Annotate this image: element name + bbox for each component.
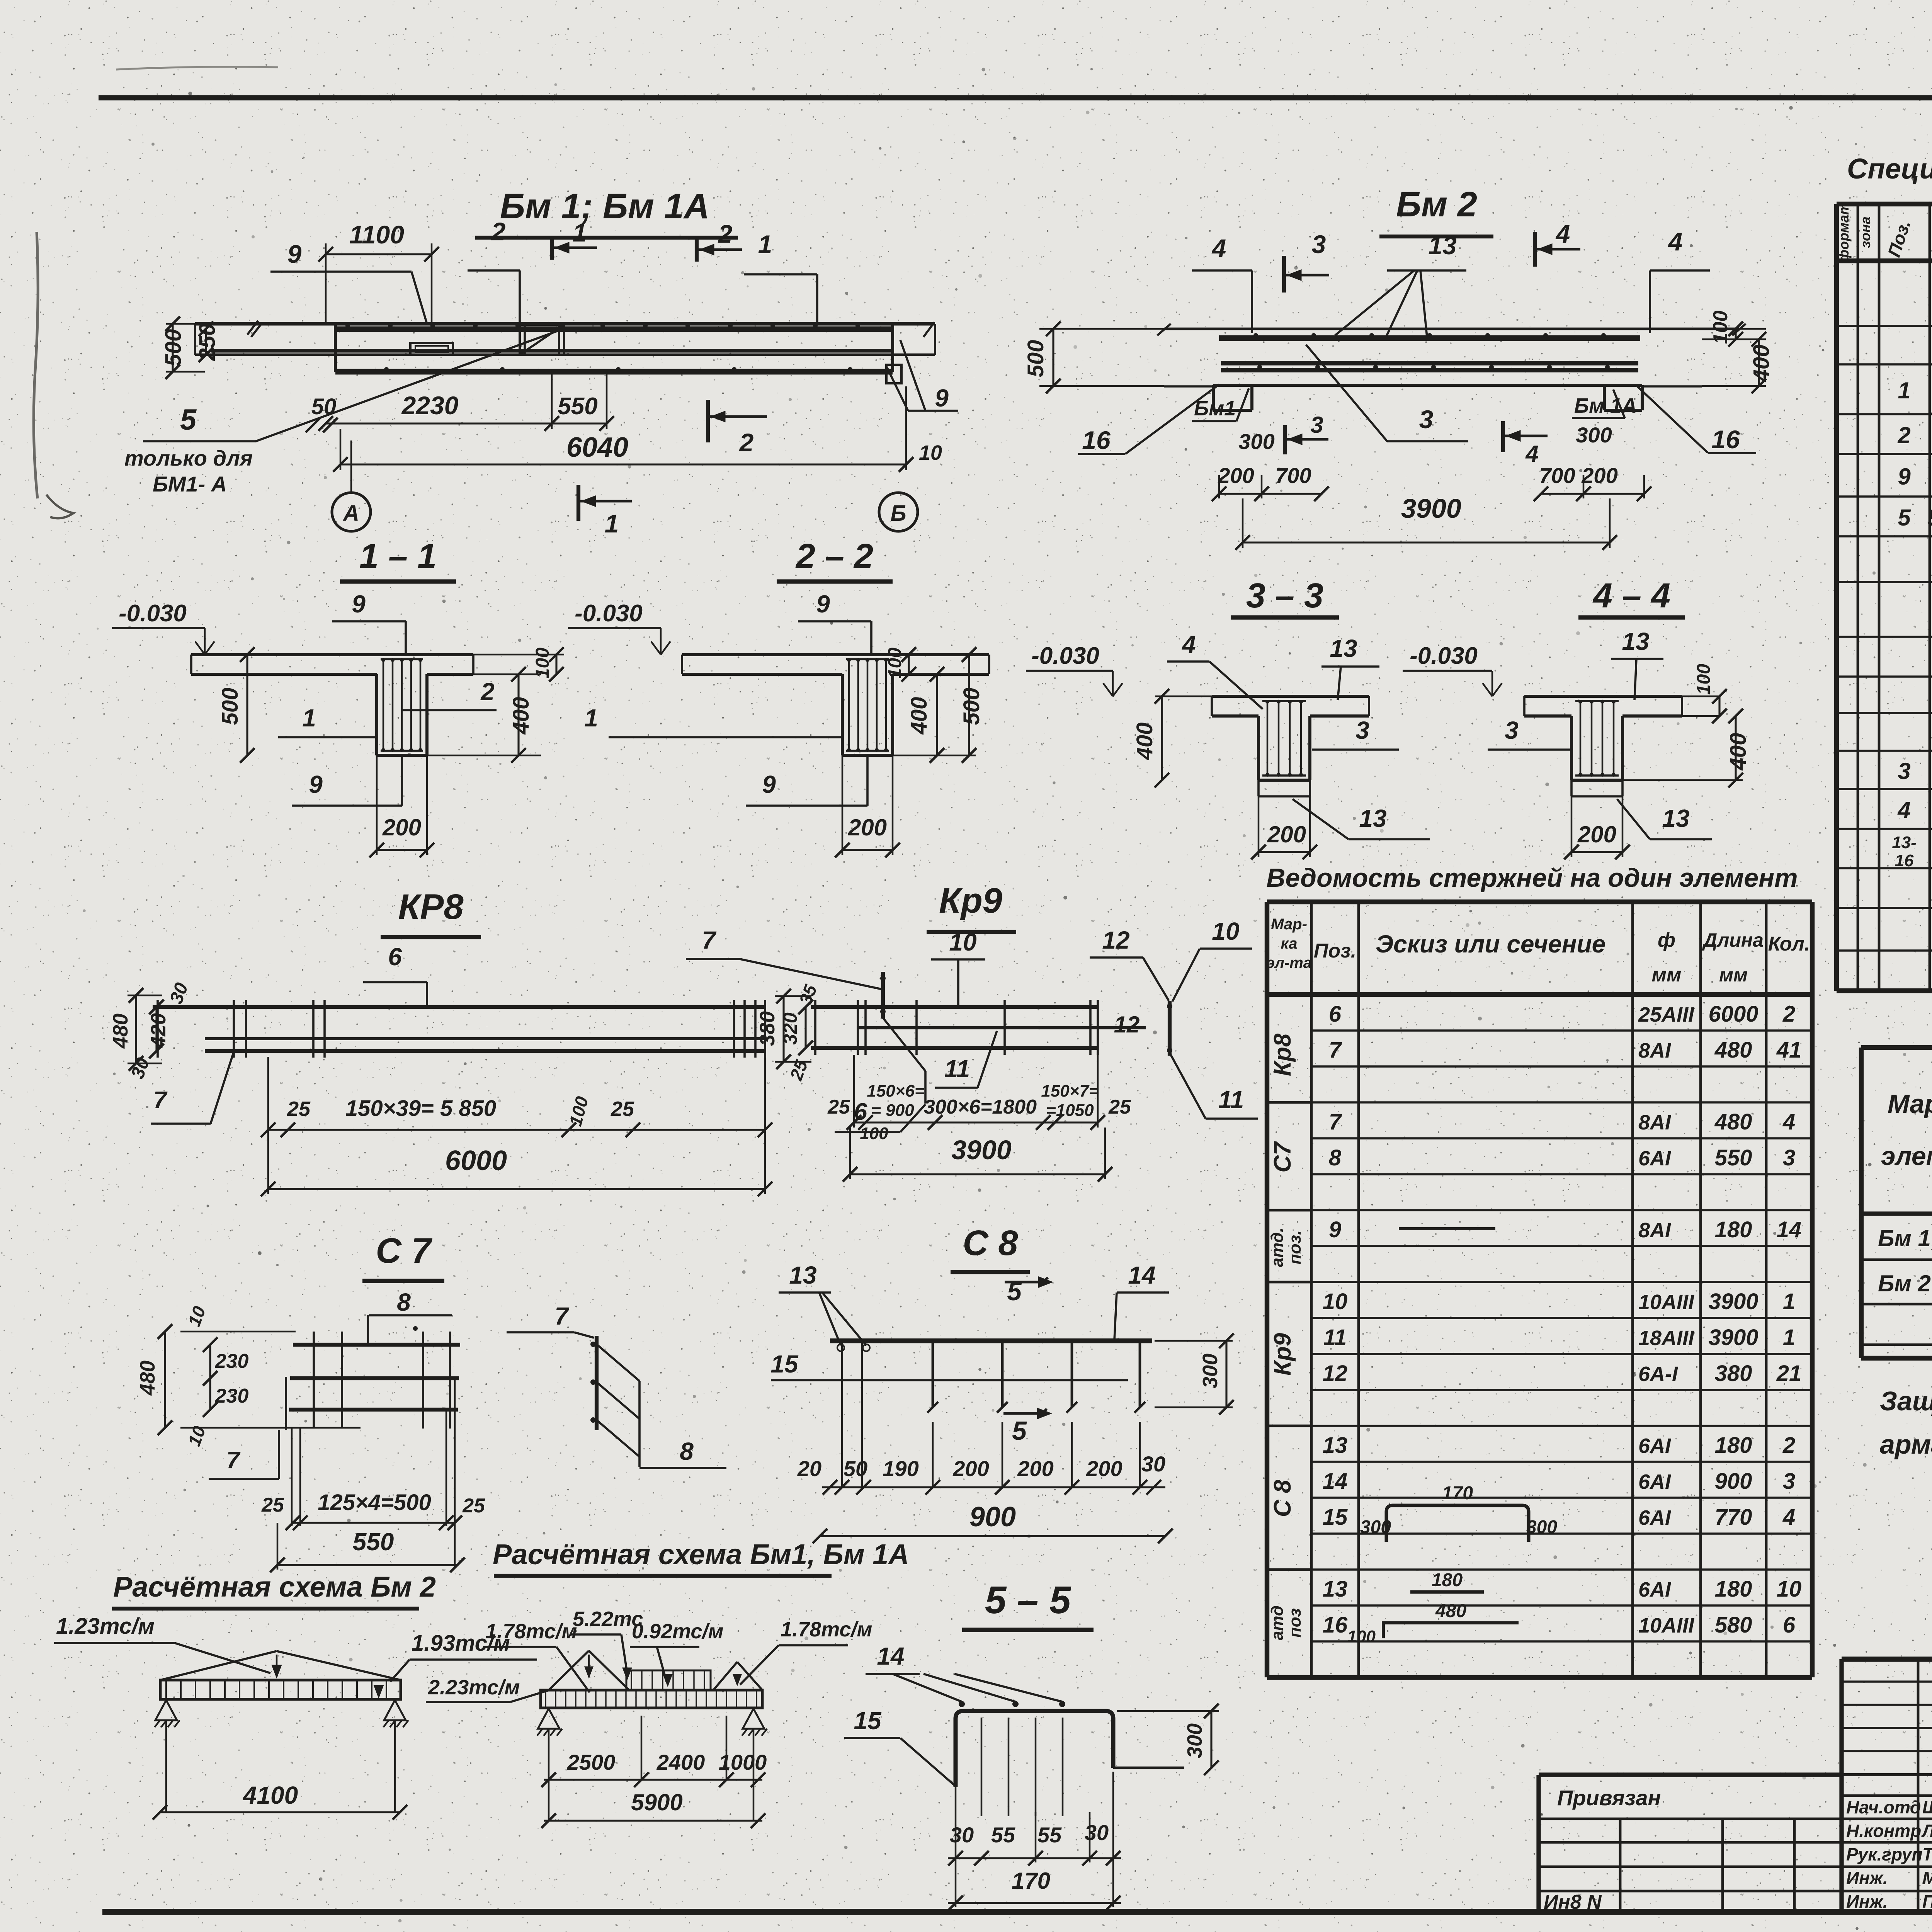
svg-text:2: 2	[1782, 1002, 1795, 1027]
svg-text:10: 10	[1777, 1577, 1802, 1602]
svg-text:170: 170	[1442, 1483, 1473, 1503]
svg-text:5: 5	[1898, 505, 1911, 531]
svg-text:9: 9	[816, 590, 830, 618]
svg-text:14: 14	[1323, 1469, 1348, 1494]
svg-text:180: 180	[1715, 1433, 1752, 1458]
svg-text:=1050: =1050	[1046, 1101, 1094, 1120]
svg-text:0.92тс/м: 0.92тс/м	[632, 1620, 723, 1643]
svg-text:200: 200	[1218, 463, 1254, 488]
svg-text:1: 1	[1783, 1289, 1795, 1314]
svg-text:150×7=: 150×7=	[1041, 1082, 1099, 1100]
svg-text:-0.030: -0.030	[575, 600, 643, 627]
svg-text:2: 2	[739, 428, 754, 457]
svg-text:13: 13	[1323, 1577, 1348, 1602]
svg-text:Кр8: Кр8	[1269, 1033, 1296, 1076]
svg-text:770: 770	[1715, 1505, 1752, 1530]
svg-text:8: 8	[1329, 1145, 1342, 1170]
svg-text:7: 7	[554, 1302, 570, 1330]
svg-text:14: 14	[1777, 1217, 1802, 1242]
svg-text:А: А	[342, 501, 359, 526]
svg-text:1 – 1: 1 – 1	[359, 537, 437, 576]
svg-text:6: 6	[388, 943, 402, 971]
svg-text:2: 2	[718, 219, 733, 248]
svg-text:16: 16	[1711, 425, 1740, 454]
svg-text:9: 9	[1329, 1217, 1341, 1242]
svg-text:13: 13	[1359, 804, 1386, 832]
svg-text:мм: мм	[1719, 964, 1748, 986]
svg-text:21: 21	[1776, 1361, 1802, 1386]
svg-text:6000: 6000	[1708, 1002, 1758, 1027]
svg-text:Нач.отд: Нач.отд	[1846, 1797, 1921, 1817]
svg-text:900: 900	[1715, 1469, 1752, 1494]
svg-text:25: 25	[287, 1097, 311, 1121]
svg-text:= 900: = 900	[871, 1101, 914, 1120]
svg-text:3: 3	[1355, 716, 1369, 744]
svg-text:10АIII: 10АIII	[1638, 1291, 1694, 1314]
svg-text:55: 55	[1037, 1823, 1062, 1847]
svg-text:Мар-: Мар-	[1271, 916, 1307, 933]
svg-text:9: 9	[1898, 464, 1911, 490]
svg-text:16: 16	[1895, 851, 1914, 870]
svg-text:55: 55	[991, 1823, 1015, 1847]
svg-text:3: 3	[1310, 412, 1323, 438]
svg-text:2: 2	[1782, 1433, 1795, 1458]
svg-text:Поз.: Поз.	[1314, 940, 1356, 962]
svg-text:2 – 2: 2 – 2	[795, 537, 873, 576]
svg-text:180: 180	[1715, 1217, 1752, 1242]
svg-text:2.23тс/м: 2.23тс/м	[428, 1676, 520, 1699]
svg-text:Перова: Перова	[1922, 1891, 1932, 1912]
svg-text:4 – 4: 4 – 4	[1592, 577, 1670, 615]
svg-text:3900: 3900	[1401, 493, 1461, 524]
svg-text:5: 5	[180, 403, 197, 436]
svg-text:Защитный слой бетона д: Защитный слой бетона для рабочей	[1880, 1386, 1932, 1416]
svg-text:6: 6	[1783, 1612, 1796, 1638]
svg-text:180: 180	[1432, 1570, 1463, 1590]
svg-text:1.78тс/м: 1.78тс/м	[485, 1620, 577, 1643]
svg-text:400: 400	[906, 697, 932, 735]
svg-text:С 7: С 7	[376, 1231, 432, 1270]
svg-text:18АIII: 18АIII	[1638, 1327, 1694, 1350]
svg-text:580: 580	[1715, 1612, 1752, 1638]
svg-text:14: 14	[1128, 1261, 1155, 1289]
svg-text:атд: атд	[1268, 1605, 1287, 1640]
svg-text:3: 3	[1783, 1145, 1795, 1170]
svg-text:25: 25	[462, 1495, 485, 1517]
svg-text:13: 13	[789, 1261, 816, 1289]
svg-text:5900: 5900	[631, 1789, 682, 1815]
svg-text:6АI: 6АI	[1638, 1147, 1671, 1170]
svg-text:1100: 1100	[349, 220, 404, 249]
svg-text:50: 50	[844, 1456, 867, 1481]
svg-text:150×39= 5 850: 150×39= 5 850	[345, 1096, 496, 1121]
svg-text:Н.контр: Н.контр	[1846, 1821, 1921, 1841]
svg-text:атд.: атд.	[1268, 1228, 1287, 1267]
svg-text:300: 300	[1526, 1517, 1557, 1537]
svg-text:550: 550	[1715, 1145, 1752, 1170]
svg-text:1.23тс/м: 1.23тс/м	[56, 1614, 155, 1639]
svg-text:300: 300	[1199, 1354, 1222, 1388]
svg-text:15: 15	[1323, 1505, 1348, 1530]
svg-text:3: 3	[1312, 230, 1326, 259]
svg-text:480: 480	[1435, 1601, 1466, 1621]
svg-text:6АI: 6АI	[1638, 1470, 1671, 1493]
svg-text:4: 4	[1555, 219, 1570, 248]
svg-text:900: 900	[969, 1502, 1016, 1532]
svg-text:25: 25	[261, 1494, 284, 1516]
svg-text:1: 1	[1783, 1325, 1795, 1350]
svg-text:200: 200	[1267, 821, 1306, 847]
svg-text:1.78тс/м: 1.78тс/м	[781, 1618, 872, 1641]
svg-text:902-1-54 –КЖИ-МН16: 902-1-54 –КЖИ-МН16	[1927, 504, 1932, 531]
svg-text:200: 200	[848, 815, 887, 840]
svg-text:100: 100	[860, 1124, 888, 1143]
svg-text:200: 200	[1017, 1456, 1053, 1481]
svg-text:эл-та: эл-та	[1266, 954, 1312, 971]
svg-text:6АI: 6АI	[1638, 1434, 1671, 1458]
svg-text:250: 250	[195, 323, 220, 361]
svg-text:25АIII: 25АIII	[1638, 1003, 1694, 1026]
svg-text:5 – 5: 5 – 5	[985, 1578, 1071, 1622]
svg-text:400: 400	[1132, 723, 1157, 760]
svg-text:4: 4	[1897, 797, 1910, 823]
svg-text:КР8: КР8	[398, 887, 464, 927]
svg-text:1: 1	[573, 218, 587, 247]
svg-text:-0.030: -0.030	[119, 600, 187, 627]
svg-text:13: 13	[1323, 1433, 1348, 1458]
svg-text:25: 25	[827, 1096, 850, 1118]
svg-text:9: 9	[352, 590, 366, 618]
svg-text:9: 9	[309, 770, 323, 798]
svg-text:6000: 6000	[445, 1145, 507, 1176]
svg-text:9: 9	[287, 240, 302, 268]
svg-text:13-: 13-	[1892, 833, 1917, 852]
svg-text:400: 400	[1749, 345, 1774, 383]
svg-text:150×6=: 150×6=	[867, 1082, 924, 1100]
svg-text:С 8: С 8	[963, 1223, 1018, 1263]
svg-text:700: 700	[1539, 463, 1575, 488]
svg-text:Спецификация элементов монолит: Спецификация элементов монолитной констр…	[1847, 153, 1932, 185]
svg-text:3: 3	[1505, 716, 1519, 744]
svg-text:2230: 2230	[401, 391, 459, 420]
svg-text:1: 1	[1898, 378, 1910, 403]
svg-text:500: 500	[161, 329, 186, 367]
svg-text:300: 300	[1360, 1517, 1391, 1537]
svg-text:4: 4	[1782, 1109, 1795, 1134]
svg-text:только для: только для	[124, 446, 253, 470]
svg-text:Ин8 N: Ин8 N	[1544, 1891, 1602, 1913]
svg-text:13: 13	[1662, 804, 1689, 832]
svg-text:Расчётная схема Бм 2: Расчётная схема Бм 2	[113, 1571, 436, 1603]
svg-text:550: 550	[558, 393, 597, 420]
svg-text:100: 100	[885, 648, 905, 679]
svg-text:6040: 6040	[566, 432, 628, 463]
svg-text:180: 180	[1715, 1577, 1752, 1602]
svg-text:Марка: Марка	[1888, 1089, 1932, 1119]
svg-text:2: 2	[480, 678, 495, 706]
svg-text:3: 3	[1898, 758, 1910, 784]
svg-text:10: 10	[1212, 917, 1239, 945]
svg-text:170: 170	[1012, 1868, 1050, 1894]
svg-text:500: 500	[1023, 340, 1048, 378]
svg-text:12: 12	[1323, 1361, 1348, 1386]
svg-text:Расчётная схема Бм1, Бм 1А: Расчётная схема Бм1, Бм 1А	[493, 1538, 909, 1570]
svg-text:3900: 3900	[1708, 1325, 1758, 1350]
svg-text:15: 15	[770, 1350, 799, 1378]
svg-text:Бм 2: Бм 2	[1396, 185, 1477, 224]
svg-text:700: 700	[1275, 463, 1311, 488]
svg-text:300×6=1800: 300×6=1800	[924, 1096, 1037, 1118]
svg-text:Мягкая: Мягкая	[1922, 1868, 1932, 1888]
svg-text:7: 7	[226, 1447, 241, 1474]
svg-text:6: 6	[1329, 1002, 1342, 1027]
svg-text:элемента: элемента	[1881, 1141, 1932, 1171]
svg-text:Бм1: Бм1	[1194, 397, 1236, 420]
svg-text:9: 9	[762, 770, 776, 798]
svg-text:Длина: Длина	[1702, 929, 1764, 951]
svg-text:4: 4	[1668, 227, 1683, 256]
svg-text:11: 11	[1218, 1086, 1244, 1114]
svg-text:2: 2	[1897, 422, 1910, 448]
svg-text:мм: мм	[1652, 964, 1682, 986]
svg-text:380: 380	[756, 1011, 779, 1046]
svg-text:8: 8	[680, 1437, 694, 1465]
svg-text:10: 10	[1323, 1289, 1348, 1314]
svg-text:3 – 3: 3 – 3	[1246, 577, 1323, 615]
svg-text:зона: зона	[1857, 216, 1873, 248]
svg-text:230: 230	[215, 1350, 249, 1372]
svg-text:480: 480	[136, 1361, 159, 1396]
svg-text:4: 4	[1525, 441, 1538, 467]
svg-text:3900: 3900	[1708, 1289, 1758, 1314]
svg-text:Инж.: Инж.	[1846, 1891, 1888, 1912]
svg-text:550: 550	[353, 1528, 394, 1556]
svg-text:8: 8	[397, 1288, 411, 1316]
svg-text:30: 30	[1085, 1820, 1109, 1845]
svg-text:Бм 1А: Бм 1А	[1574, 394, 1637, 417]
svg-text:25: 25	[1108, 1096, 1131, 1118]
svg-text:ф: ф	[1658, 929, 1675, 951]
svg-text:100: 100	[1694, 664, 1714, 695]
svg-text:6АI: 6АI	[1638, 1578, 1671, 1601]
svg-text:200: 200	[1577, 821, 1616, 847]
svg-text:14: 14	[877, 1642, 904, 1670]
svg-text:Кр9: Кр9	[939, 881, 1002, 920]
svg-text:300: 300	[1238, 429, 1274, 454]
svg-text:3900: 3900	[951, 1135, 1012, 1165]
svg-text:Лучковский: Лучковский	[1921, 1821, 1932, 1841]
svg-text:Б: Б	[890, 501, 906, 526]
svg-text:7: 7	[1329, 1109, 1342, 1134]
svg-text:поз.: поз.	[1286, 1230, 1304, 1264]
svg-text:Бм 1; Бм1А: Бм 1; Бм1А	[1878, 1225, 1932, 1251]
svg-text:420: 420	[147, 1013, 170, 1048]
svg-text:480: 480	[1714, 1109, 1752, 1134]
svg-text:3: 3	[1419, 405, 1434, 434]
svg-text:5: 5	[1012, 1416, 1027, 1446]
svg-text:1: 1	[302, 704, 316, 732]
svg-text:400: 400	[1726, 733, 1751, 771]
svg-text:7: 7	[702, 926, 717, 954]
svg-text:500: 500	[959, 688, 984, 725]
svg-text:4100: 4100	[242, 1781, 298, 1809]
svg-text:400: 400	[509, 697, 534, 735]
svg-text:13: 13	[1622, 628, 1649, 655]
svg-text:Привязан: Привязан	[1557, 1786, 1661, 1810]
svg-text:200: 200	[1086, 1456, 1122, 1481]
svg-text:320: 320	[779, 1012, 801, 1045]
svg-text:8АI: 8АI	[1638, 1111, 1671, 1134]
svg-text:1: 1	[758, 230, 772, 259]
svg-text:1: 1	[584, 704, 598, 732]
svg-text:9: 9	[935, 384, 949, 412]
svg-text:Кр9: Кр9	[1269, 1333, 1296, 1376]
svg-text:300: 300	[1183, 1723, 1206, 1758]
svg-text:6А-I: 6А-I	[1638, 1362, 1678, 1386]
svg-text:16: 16	[1323, 1612, 1348, 1638]
svg-text:13: 13	[1330, 634, 1357, 662]
svg-text:10: 10	[949, 928, 976, 956]
svg-text:Бм 1; Бм 1А: Бм 1; Бм 1А	[500, 187, 709, 226]
svg-text:Шейко: Шейко	[1922, 1797, 1932, 1817]
svg-text:2: 2	[491, 217, 506, 246]
svg-text:3: 3	[1783, 1469, 1795, 1494]
svg-text:12: 12	[1114, 1012, 1140, 1037]
svg-text:Рук.груп: Рук.груп	[1846, 1844, 1923, 1864]
svg-text:4: 4	[1181, 631, 1196, 658]
svg-text:Ведомость стержней на один эле: Ведомость стержней на один элемент	[1266, 863, 1798, 893]
svg-text:500: 500	[218, 688, 243, 725]
svg-text:480: 480	[1714, 1037, 1752, 1063]
svg-text:1000: 1000	[719, 1750, 767, 1774]
svg-text:125×4=500: 125×4=500	[318, 1490, 431, 1515]
svg-text:15: 15	[854, 1707, 882, 1735]
svg-text:100: 100	[532, 648, 553, 679]
svg-text:6АI: 6АI	[1638, 1506, 1671, 1529]
svg-text:20: 20	[797, 1456, 821, 1481]
svg-text:С 8: С 8	[1269, 1480, 1296, 1517]
svg-text:30: 30	[950, 1823, 974, 1847]
svg-text:10: 10	[919, 441, 942, 464]
svg-text:формат: формат	[1836, 202, 1852, 262]
svg-text:Эскиз или сечение: Эскиз или сечение	[1376, 930, 1605, 958]
svg-text:-0.030: -0.030	[1031, 643, 1099, 669]
svg-text:12: 12	[1102, 926, 1129, 954]
svg-text:200: 200	[382, 815, 421, 840]
svg-text:8АI: 8АI	[1638, 1039, 1671, 1062]
svg-text:41: 41	[1776, 1037, 1802, 1063]
svg-text:8АI: 8АI	[1638, 1219, 1671, 1242]
svg-text:С7: С7	[1269, 1141, 1296, 1173]
svg-text:4: 4	[1211, 234, 1226, 262]
svg-text:арматуры принят 25мм.: арматуры принят 25мм.	[1880, 1429, 1932, 1459]
svg-text:1: 1	[605, 509, 619, 538]
svg-text:7: 7	[153, 1087, 168, 1114]
svg-text:БМ1- А: БМ1- А	[153, 472, 227, 496]
svg-text:7: 7	[1329, 1037, 1342, 1063]
svg-text:480: 480	[109, 1014, 132, 1049]
svg-text:Тахтамышева: Тахтамышева	[1922, 1844, 1932, 1864]
svg-text:4: 4	[1782, 1505, 1795, 1530]
svg-text:190: 190	[883, 1456, 918, 1481]
svg-text:380: 380	[1715, 1361, 1752, 1386]
svg-text:Инж.: Инж.	[1846, 1868, 1888, 1888]
svg-text:2400: 2400	[656, 1750, 705, 1774]
svg-text:поз: поз	[1286, 1608, 1304, 1638]
svg-text:16: 16	[1082, 426, 1111, 454]
svg-text:300: 300	[1576, 423, 1612, 447]
svg-text:30: 30	[1141, 1452, 1165, 1476]
svg-text:11: 11	[944, 1055, 970, 1083]
svg-text:25: 25	[611, 1097, 634, 1121]
svg-text:11: 11	[1323, 1325, 1347, 1350]
svg-text:230: 230	[215, 1385, 249, 1407]
svg-text:13: 13	[1428, 231, 1456, 260]
svg-text:-0.030: -0.030	[1410, 643, 1478, 669]
svg-text:10АIII: 10АIII	[1638, 1614, 1694, 1637]
svg-text:Кол.: Кол.	[1768, 933, 1810, 955]
svg-text:200: 200	[952, 1456, 989, 1481]
svg-text:Бм 2: Бм 2	[1878, 1270, 1931, 1296]
svg-text:200: 200	[1581, 463, 1617, 488]
svg-text:ка: ка	[1281, 935, 1297, 952]
svg-text:2500: 2500	[567, 1750, 616, 1774]
svg-text:100: 100	[1347, 1627, 1376, 1646]
